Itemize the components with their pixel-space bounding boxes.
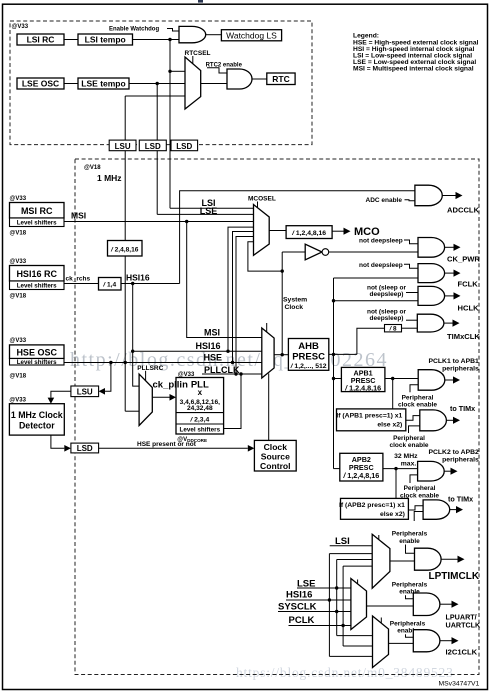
cropped caption artifact top [198, 0, 203, 3]
wire MSI to MCOSEL [64, 221, 254, 223]
wire enable timx1 stub [409, 426, 420, 433]
wire spine to APB2 [334, 468, 340, 470]
svg-text:HSI16: HSI16 [286, 590, 312, 601]
wire LSE tempo to RTCSEL input [129, 83, 185, 85]
wire HSE riser to MCOSEL [233, 232, 254, 363]
wire inverter output to CK_PWR gate [329, 251, 418, 253]
wire LSI into LPTIM mux [330, 545, 373, 547]
wire enable watchdog to gate [167, 29, 179, 32]
wire spine to APB1 [334, 378, 342, 380]
node junction LSI tempo [168, 38, 171, 41]
svg-text:peripherals: peripherals [442, 456, 479, 463]
node junction MSI [185, 220, 188, 223]
svg-text:peripherals: peripherals [442, 365, 479, 372]
wire MCOSEL output [269, 230, 286, 232]
wire APB1 out to PCLK1 gate [385, 378, 418, 380]
wire pclk2 down to if box 2 [395, 469, 397, 499]
svg-text:24,32,48: 24,32,48 [187, 405, 213, 412]
block LSI tempo [78, 34, 133, 45]
svg-text:Enable Watchdog: Enable Watchdog [109, 27, 159, 33]
svg-text:Peripheral: Peripheral [404, 485, 436, 492]
wire PLLSRC select stub [145, 371, 147, 381]
wire LPTIM mux select stub [378, 535, 380, 540]
svg-text:LSD: LSD [77, 444, 93, 453]
wire HSE present to clock source control with arrow [99, 447, 248, 449]
and-gate I2C1CLK [413, 630, 440, 652]
wire RTC2 enable to gate [207, 68, 227, 73]
wire SYSCLK to inverter [282, 251, 305, 253]
svg-text:HSI16 RC: HSI16 RC [16, 269, 57, 279]
wire enable pclk2 riser [410, 475, 418, 483]
wire LSE into MCOSEL [157, 213, 253, 215]
svg-text:PCLK1 to APB1: PCLK1 to APB1 [428, 358, 479, 365]
svg-text:Peripherals: Peripherals [392, 531, 428, 538]
svg-text:Control: Control [260, 461, 291, 471]
oscillator HSE OSC with level shifters [10, 338, 65, 379]
svg-text:to TIMx: to TIMx [450, 404, 475, 413]
node junction HSE lsu branch [109, 361, 112, 364]
node junction sysclk out [281, 353, 284, 356]
svg-text:clock enable: clock enable [398, 402, 437, 409]
svg-text:MCOSEL: MCOSEL [248, 196, 276, 203]
wire SYSCLK mux select stub [266, 323, 268, 332]
wire LPUART mux output [367, 605, 414, 607]
svg-text:UARTCLK: UARTCLK [446, 620, 482, 629]
and-gate PCLK2 [418, 461, 445, 481]
svg-text:@V33: @V33 [10, 259, 27, 265]
block LSE tempo [78, 78, 129, 89]
svg-text:not deepsleep: not deepsleep [359, 238, 403, 245]
svg-text:HSI16: HSI16 [196, 341, 221, 351]
dashed box V18 main domain [75, 159, 479, 675]
level shifter LSD lower [71, 443, 99, 453]
svg-text:@V18: @V18 [10, 373, 27, 379]
wire TIMx2 out arrow [450, 509, 456, 511]
wire watchdog gate to Watchdog LS [206, 34, 222, 36]
wire spine to HCLK gate [334, 300, 419, 302]
node junction PLLCLK mcosel [234, 372, 237, 375]
divider /2,4,8,16 [108, 241, 143, 257]
wire LSE OSC to LSE tempo [64, 83, 78, 85]
svg-text:/ 1,4: / 1,4 [102, 282, 116, 289]
svg-text:Peripherals: Peripherals [392, 581, 428, 588]
inverter not deepsleep buffer [305, 244, 322, 260]
svg-text:LSD: LSD [145, 142, 161, 151]
and-gate watchdog [179, 26, 206, 42]
svg-text:LSI tempo: LSI tempo [85, 35, 126, 45]
wire detector to LSD2 with arrow [51, 435, 64, 448]
svg-text:enable: enable [399, 538, 420, 545]
wire enable i2c [406, 634, 414, 637]
node junction LSI RTCSEL [168, 70, 171, 73]
level shifter LSU top [109, 140, 136, 151]
svg-text:Watchdog LS: Watchdog LS [226, 30, 277, 40]
wire HSI16 RC to div14 [64, 283, 99, 285]
and-gate RTC [227, 69, 252, 89]
wire LSE riser to LPTIM mux and SYSCLK drop to I2C mux [336, 560, 338, 636]
svg-text:ck_rchs: ck_rchs [66, 276, 91, 283]
svg-text:@V18: @V18 [84, 165, 101, 171]
svg-text:@V33: @V33 [12, 24, 29, 30]
level shifter LSD 2 [171, 140, 198, 151]
svg-text:MSI: MSI [71, 211, 86, 221]
wire TIMxCLK out arrow [444, 322, 453, 324]
svg-text:Source: Source [261, 451, 290, 461]
svg-text:CK_PWR: CK_PWR [447, 254, 480, 263]
wire HSI16 riser to LPTIM mux and down to I2C mux [328, 554, 330, 657]
node junction PCLK bottom [341, 624, 344, 627]
mux SYSCLK SW [262, 328, 274, 378]
wire LSI tempo to watchdog gate [133, 39, 180, 41]
mux PLLSRC [139, 374, 152, 425]
svg-text:SYSCLK: SYSCLK [278, 602, 317, 613]
block APB1 PRESC [341, 367, 385, 392]
node junction spine ahb [332, 353, 335, 356]
wire FCLK out arrow [445, 272, 454, 274]
svg-text:Peripheral: Peripheral [402, 394, 434, 401]
node junction HSI16 mcosel [226, 350, 229, 353]
svg-text:PLLCLK: PLLCLK [204, 365, 240, 375]
wire spine to FCLK gate [334, 277, 419, 279]
wire enable timx2 stub [414, 512, 423, 522]
node junction HSE divider [124, 361, 127, 364]
svg-text:/ 1,2,4,8,16: / 1,2,4,8,16 [344, 383, 381, 392]
svg-text:else x2): else x2) [377, 422, 402, 429]
svg-text:32 MHz: 32 MHz [394, 453, 418, 460]
wire RTCSEL output to RTC gate [201, 83, 227, 85]
svg-text:@V33: @V33 [10, 196, 27, 202]
wire MSI down to SYSCLK mux [187, 222, 262, 338]
block Watchdog LS [221, 30, 281, 41]
node junction HSE mcosel [231, 361, 234, 364]
svg-text:LSD: LSD [176, 142, 192, 151]
svg-text:/ 1,2,..., 512: / 1,2,..., 512 [290, 363, 327, 370]
svg-text:System: System [283, 297, 307, 304]
svg-text:Peripheral: Peripheral [393, 435, 425, 442]
divider /1,2,4,8,16 MCO [286, 226, 332, 239]
wire SYSCLK riser to MCOSEL [248, 242, 282, 271]
svg-text:else x2): else x2) [380, 511, 405, 518]
oscillator LSE OSC [17, 78, 64, 89]
wire HSE branch to LSU2 with arrow [105, 363, 111, 392]
node junction spine hclk [332, 299, 335, 302]
svg-text:not deepsleep: not deepsleep [359, 262, 403, 269]
svg-text:HSE OSC: HSE OSC [16, 347, 57, 357]
wire TIMx1 out arrow [446, 419, 453, 421]
svg-text:1 MHz: 1 MHz [97, 173, 122, 183]
wire I2C out arrow [440, 640, 452, 642]
wire adc enable [405, 200, 415, 201]
svg-text:Peripherals: Peripherals [390, 620, 426, 627]
wire if box to timx gate 1 [406, 416, 420, 421]
svg-text:PCLK2 to APB2: PCLK2 to APB2 [428, 449, 479, 456]
mux I2C1 [373, 616, 389, 668]
svg-text:/ 2,4,8,16: / 2,4,8,16 [110, 246, 139, 253]
svg-text:HSI16: HSI16 [126, 272, 150, 282]
svg-text:Level shifters: Level shifters [17, 359, 57, 366]
svg-text:deepsleep): deepsleep) [370, 315, 404, 322]
svg-text:ck_pllin: ck_pllin [153, 379, 189, 390]
svg-text:x: x [198, 388, 203, 397]
svg-text:@V18: @V18 [10, 231, 27, 237]
block If APB1 presc x1 else x2 [336, 409, 405, 431]
node junction pclk2 [394, 467, 397, 470]
wire enable lpuart [406, 595, 414, 599]
svg-text:ADC enable: ADC enable [366, 197, 403, 204]
and-gate PCLK1 [418, 370, 445, 391]
svg-text:LSI: LSI [335, 536, 350, 547]
svg-text:to TIMx: to TIMx [448, 495, 473, 504]
svg-text:RTCSEL: RTCSEL [185, 50, 211, 57]
node junction HSI16 bottom [328, 598, 331, 601]
block APB2 PRESC [340, 453, 383, 481]
wire enable lptim [406, 545, 415, 554]
block If APB2 presc x1 else x2 [339, 498, 408, 519]
svg-text:I2C1CLK: I2C1CLK [446, 648, 478, 657]
wire APB2 out to PCLK2 gate [383, 468, 418, 470]
svg-text:AHB: AHB [298, 341, 319, 352]
wire LPTIM out arrow [441, 558, 457, 560]
wire hclk to div8 riser [357, 328, 385, 354]
node junction spine apb1 [332, 377, 335, 380]
svg-text:TIMxCLK: TIMxCLK [447, 332, 480, 341]
oscillator LSI RC [17, 34, 64, 45]
svg-text:/ 8: / 8 [388, 326, 397, 333]
and-gate TIMxCLK [417, 314, 444, 332]
wire LSI into RTCSEL input [170, 70, 185, 72]
wire enable timxclk [406, 319, 417, 321]
wire LPTIM mux output [390, 560, 415, 562]
wire HSI16 branch to SYSCLK mux [133, 350, 262, 352]
wire HSI16 main [121, 283, 180, 285]
and-gate LPUART [413, 593, 440, 616]
dashed box V33 top domain [10, 21, 312, 145]
svg-text:max.: max. [401, 460, 417, 467]
svg-text:deepsleep): deepsleep) [370, 291, 404, 298]
block 1 MHz clock detector [9, 398, 64, 436]
block PLL multiplier divider [176, 378, 224, 435]
wire LSI into MCOSEL [170, 207, 254, 209]
wire SYSCLK bottom [278, 611, 351, 613]
wire LSI branch down to RTCSEL [169, 40, 171, 72]
and-gate FCLK [418, 264, 445, 283]
wire PCLK bottom [289, 625, 351, 627]
wire HSE to PLLSRC input [125, 410, 139, 412]
wire enable hclk [406, 292, 418, 294]
mux RTCSEL [185, 57, 201, 109]
wire CK_PWR out arrow [445, 246, 454, 248]
and-gate ADCCLK [415, 185, 442, 206]
svg-text:MSv34747V1: MSv34747V1 [438, 681, 479, 688]
divider /8 [385, 325, 402, 333]
wire PLL output up to PLLCLK [224, 374, 241, 429]
wire pclk1 down to if box [392, 379, 394, 409]
wire if box 2 to timx gate 2 [408, 506, 423, 510]
wire SYSCLK vertical riser [281, 252, 283, 355]
svg-text:MSI = Multispeed internal cloc: MSI = Multispeed internal clock signal [353, 66, 474, 73]
wire I2C mux select stub [380, 618, 382, 624]
block Clock Source Control [254, 440, 296, 471]
wire LPUART out arrow [440, 603, 452, 605]
svg-text:Clock: Clock [264, 442, 288, 452]
svg-text:HCLK: HCLK [458, 304, 480, 313]
wire HSI16 up to ADC gate [180, 191, 415, 284]
wire mux down to clock source control [268, 374, 270, 441]
node junction PLLCLK feedback [239, 372, 242, 375]
svg-text:PRESC: PRESC [292, 352, 325, 363]
svg-text:@V33: @V33 [9, 398, 26, 404]
svg-text:/ 2,3,4: / 2,3,4 [189, 416, 209, 423]
and-gate CK_PWR [418, 238, 445, 258]
wire PLLCLK into SYSCLK mux [202, 373, 262, 375]
wire HSE main to SYSCLK mux [64, 362, 262, 364]
mux MCOSEL [254, 205, 270, 256]
svg-text:1 MHz Clock: 1 MHz Clock [11, 410, 63, 420]
wire HSE to divider vertical [124, 256, 126, 411]
wire PLLSRC to PLL with arrow [152, 396, 169, 398]
wire PCLK riser to LPTIM mux and drop to I2C mux [342, 566, 344, 646]
svg-text:MSI: MSI [204, 328, 220, 338]
svg-text:LSU: LSU [77, 388, 93, 397]
svg-text:MSI RC: MSI RC [21, 206, 53, 216]
svg-text:PLLSRC: PLLSRC [137, 365, 163, 372]
wire enable ck_pwr [404, 240, 418, 244]
svg-text:If (APB2 presc=1) x1: If (APB2 presc=1) x1 [339, 502, 405, 509]
mux LPUART [351, 579, 367, 630]
wire HSE div vertical through LSU [124, 96, 126, 241]
wire MCO output with arrow [332, 230, 343, 232]
svg-text:Level shifters: Level shifters [179, 427, 220, 434]
svg-text:ADCCLK: ADCCLK [447, 205, 480, 214]
node junction LSE tempo [156, 82, 159, 85]
wire enable pclk1 riser [410, 385, 418, 393]
wire AHB output [329, 353, 357, 355]
wire RTC gate to RTC box [252, 78, 267, 80]
node junction SYSCLK bottom [335, 610, 338, 613]
wire PCLK1 out arrow [445, 379, 453, 381]
level shifter LSD 1 [139, 140, 166, 151]
svg-text:clock enable: clock enable [389, 442, 428, 449]
wire LPUART mux select stub [357, 580, 359, 584]
svg-text:Clock: Clock [285, 304, 304, 311]
wire LSU2 to clock detector with arrow [51, 391, 71, 397]
svg-text:@V33: @V33 [10, 338, 27, 344]
and-gate TIMx APB2 [423, 500, 450, 519]
node junction SYSCLK branch [281, 269, 284, 272]
svg-text:LSE tempo: LSE tempo [81, 79, 125, 89]
oscillator HSI16 RC with level shifters [10, 259, 65, 300]
wire RTCSEL select stub [192, 56, 194, 64]
wire LSE vertical down to LSD [156, 84, 158, 215]
svg-text:@VDDCORE: @VDDCORE [177, 437, 207, 443]
svg-text:Level shifters: Level shifters [17, 283, 57, 290]
and-gate TIMx APB1 [420, 410, 447, 431]
wire HCLK spine vertical [333, 278, 335, 469]
wire HSE div into RTCSEL input [125, 95, 185, 97]
level shifter LSU lower [71, 386, 99, 397]
node junction pclk1 [391, 377, 394, 380]
wire LSE bottom [297, 587, 351, 589]
svg-text:LSU: LSU [115, 142, 131, 151]
wire I2C mux output [389, 642, 414, 644]
svg-text:/ 1,2,4,8,16: / 1,2,4,8,16 [342, 471, 379, 480]
oscillator MSI RC with level shifters [10, 196, 65, 237]
wire SYSCLK mux output to AHB [274, 354, 288, 356]
svg-text:FCLK: FCLK [458, 280, 479, 289]
wire HSI16 riser to MCOSEL [228, 227, 254, 351]
svg-text:LSI RC: LSI RC [27, 35, 55, 45]
node junction HSI16 sysclk [131, 350, 134, 353]
svg-text:Level shifters: Level shifters [17, 220, 57, 227]
wire PLLCLK riser to MCOSEL [236, 237, 254, 375]
wire LSI RC to LSI tempo [64, 39, 78, 41]
svg-text:HSE: HSE [204, 353, 223, 363]
svg-text:RTC: RTC [272, 74, 289, 84]
svg-text:Detector: Detector [19, 421, 55, 431]
svg-text:PCLK: PCLK [289, 615, 315, 626]
wire ADCCLK out arrow [442, 195, 455, 197]
wire enable fclk [404, 264, 418, 268]
wire LSI vertical down to LSD [169, 71, 171, 208]
node junction HSI16 [131, 282, 134, 285]
svg-text:/ 1,2,4,8,16: / 1,2,4,8,16 [291, 230, 326, 237]
wire HSI16 bottom [286, 599, 351, 601]
wire div8 to TIMxCLK gate [402, 327, 418, 329]
and-gate LPTIMCLK [415, 548, 442, 570]
svg-text:https://blog.csdn.net/m0_38489: https://blog.csdn.net/m0_38489523 [236, 665, 454, 680]
wire PCLK2 out arrow [444, 470, 450, 472]
wire HSI16 down to PLLSRC [133, 284, 139, 387]
block AHB PRESC [288, 339, 328, 371]
svg-text:LSE OSC: LSE OSC [22, 79, 59, 89]
wire HCLK out arrow [445, 295, 454, 297]
divider /1,4 [99, 278, 122, 291]
svg-text:LPTIMCLK: LPTIMCLK [429, 571, 480, 582]
wire MCOSEL select stub [257, 202, 259, 209]
svg-text:MCO: MCO [354, 226, 380, 238]
svg-text:If (APB1 presc=1) x1: If (APB1 presc=1) x1 [336, 412, 402, 419]
block RTC [267, 73, 295, 85]
mux LPTIM [372, 534, 390, 588]
node junction LSE bottom [335, 586, 338, 589]
svg-text:@V18: @V18 [10, 294, 27, 300]
legend text [353, 33, 479, 73]
and-gate HCLK [418, 286, 445, 305]
